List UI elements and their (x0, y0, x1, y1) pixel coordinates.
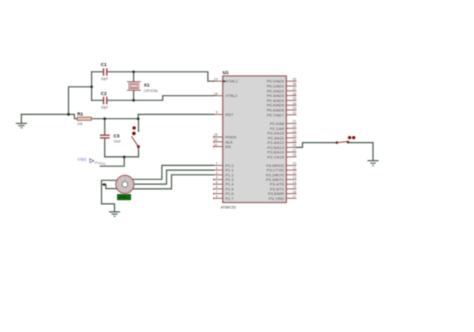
svg-text:10uF: 10uF (114, 139, 121, 143)
svg-text:XTAL1: XTAL1 (226, 79, 239, 84)
svg-text:7: 7 (216, 190, 218, 194)
svg-text:27: 27 (293, 148, 297, 152)
svg-text:22: 22 (293, 125, 297, 129)
svg-text:6: 6 (216, 185, 218, 189)
svg-text:34: 34 (293, 101, 297, 105)
svg-text:37: 37 (293, 87, 297, 91)
svg-text:21: 21 (293, 120, 297, 124)
svg-text:2: 2 (216, 166, 218, 170)
svg-text:28: 28 (293, 153, 297, 157)
svg-text:C3: C3 (114, 133, 120, 138)
svg-text:36: 36 (293, 92, 297, 96)
svg-text:29: 29 (214, 133, 218, 137)
svg-text:-1.8: -1.8 (119, 196, 125, 200)
svg-text:5: 5 (216, 180, 218, 184)
svg-text:U1: U1 (223, 70, 229, 76)
svg-text:AT89C51: AT89C51 (221, 205, 236, 209)
svg-text:4: 4 (216, 176, 218, 180)
svg-text:23: 23 (293, 129, 297, 133)
svg-text:P3.7/RD: P3.7/RD (269, 196, 284, 201)
svg-text:9: 9 (216, 111, 218, 115)
svg-text:8: 8 (216, 195, 218, 199)
svg-text:11: 11 (293, 166, 297, 170)
svg-text:1: 1 (216, 162, 218, 166)
svg-text:26: 26 (293, 144, 297, 148)
svg-text:C2: C2 (101, 91, 107, 96)
svg-text:C3(1): C3(1) (78, 157, 87, 161)
svg-text:P1.7: P1.7 (225, 196, 234, 201)
svg-text:38: 38 (293, 82, 297, 86)
svg-text:CRYSTAL: CRYSTAL (144, 89, 159, 93)
svg-text:C1: C1 (101, 62, 107, 67)
svg-text:P0.7/AD7: P0.7/AD7 (267, 112, 285, 117)
svg-text:31: 31 (214, 143, 218, 147)
svg-text:18: 18 (214, 92, 218, 96)
svg-text:32: 32 (293, 111, 297, 115)
svg-text:XTAL2: XTAL2 (225, 93, 238, 98)
svg-text:12: 12 (293, 171, 297, 175)
svg-text:P2.7/A15: P2.7/A15 (268, 154, 285, 159)
svg-text:EA: EA (225, 144, 231, 149)
svg-text:10k: 10k (77, 122, 83, 126)
svg-text:RST: RST (225, 112, 234, 117)
svg-text:33: 33 (293, 106, 297, 110)
svg-text:X1: X1 (144, 83, 150, 88)
svg-text:19: 19 (214, 77, 218, 81)
svg-text:24: 24 (293, 134, 297, 138)
svg-text:13: 13 (293, 176, 297, 180)
svg-text:R1: R1 (77, 111, 83, 116)
svg-text:3: 3 (216, 171, 218, 175)
svg-text:35: 35 (293, 97, 297, 101)
svg-text:16: 16 (293, 190, 297, 194)
svg-text:15: 15 (293, 185, 297, 189)
svg-text:33pF: 33pF (101, 77, 108, 81)
svg-text:17: 17 (293, 195, 297, 199)
svg-text:39: 39 (293, 77, 297, 81)
svg-text:14: 14 (293, 180, 297, 184)
svg-text:30: 30 (214, 138, 218, 142)
svg-text:33pF: 33pF (101, 105, 108, 109)
svg-text:25: 25 (293, 139, 297, 143)
svg-text:10: 10 (293, 162, 297, 166)
